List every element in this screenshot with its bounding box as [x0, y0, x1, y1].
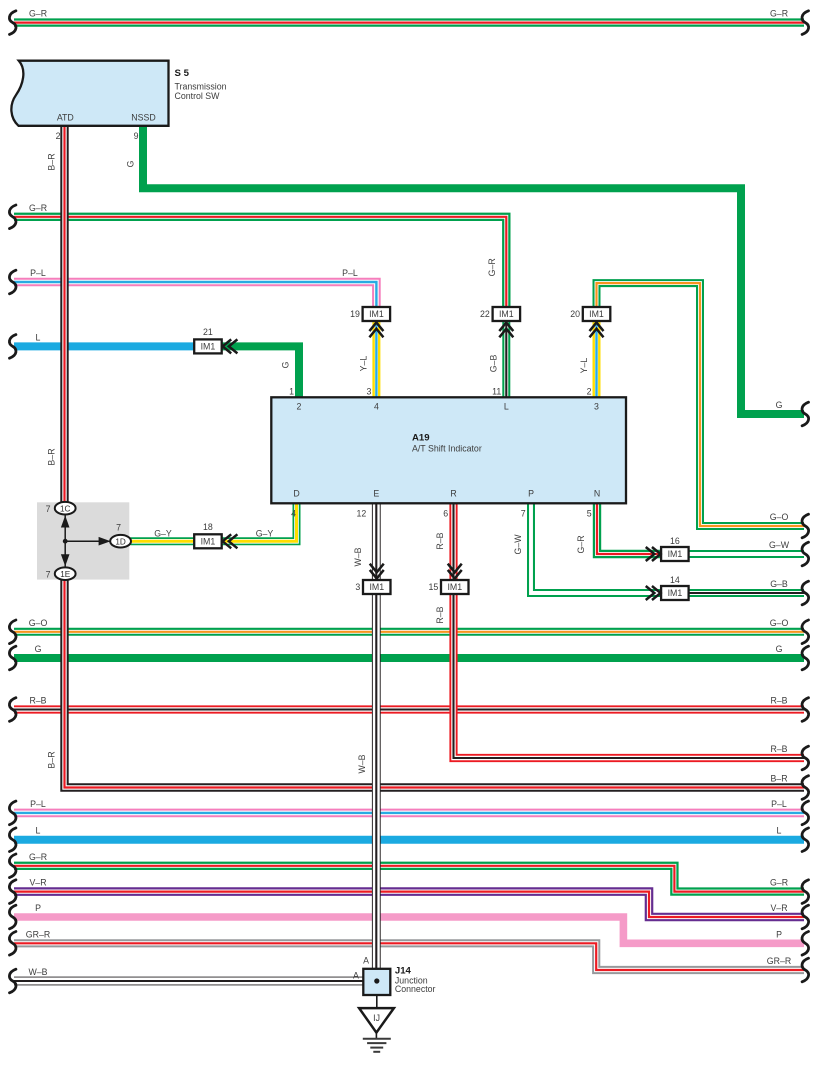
svg-text:B–R: B–R	[47, 448, 57, 465]
svg-text:7: 7	[46, 504, 51, 514]
svg-text:G–R: G–R	[487, 258, 497, 276]
svg-text:20: 20	[570, 309, 580, 319]
svg-text:D: D	[293, 489, 299, 499]
svg-text:IM1: IM1	[201, 537, 216, 547]
svg-text:G: G	[776, 644, 783, 654]
svg-text:IJ: IJ	[373, 1013, 380, 1023]
svg-text:G–O: G–O	[770, 618, 789, 628]
svg-text:16: 16	[670, 536, 680, 546]
svg-text:14: 14	[670, 575, 680, 585]
svg-text:G–Y: G–Y	[256, 529, 274, 539]
svg-text:G–Y: G–Y	[154, 529, 172, 539]
svg-text:L: L	[777, 826, 782, 836]
svg-text:G: G	[35, 644, 42, 654]
svg-text:G–W: G–W	[769, 540, 790, 550]
svg-text:G–B: G–B	[488, 355, 498, 373]
svg-text:V–R: V–R	[29, 878, 46, 888]
svg-text:R–B: R–B	[435, 606, 445, 623]
svg-text:6: 6	[443, 509, 448, 519]
svg-text:R–B: R–B	[435, 532, 445, 549]
svg-text:E: E	[373, 489, 379, 499]
svg-text:G–R: G–R	[770, 878, 788, 888]
svg-text:3: 3	[355, 582, 360, 592]
svg-text:4: 4	[374, 402, 379, 412]
svg-text:L: L	[36, 826, 41, 836]
svg-text:G–O: G–O	[770, 512, 789, 522]
svg-text:S 5: S 5	[175, 68, 190, 79]
svg-text:7: 7	[116, 523, 121, 533]
svg-text:W–B: W–B	[28, 967, 47, 977]
svg-text:L: L	[36, 332, 41, 342]
svg-text:IM1: IM1	[589, 309, 604, 319]
svg-text:R–B: R–B	[29, 696, 46, 706]
svg-text:R: R	[450, 489, 456, 499]
svg-text:15: 15	[428, 582, 438, 592]
svg-text:IM1: IM1	[369, 309, 384, 319]
svg-text:G: G	[126, 160, 136, 167]
svg-text:G–B: G–B	[770, 579, 788, 589]
svg-text:A: A	[353, 970, 359, 980]
svg-text:G: G	[281, 361, 291, 368]
svg-text:Y–L: Y–L	[359, 356, 369, 372]
svg-text:IM1: IM1	[499, 309, 514, 319]
svg-text:G–R: G–R	[29, 203, 47, 213]
svg-text:21: 21	[203, 327, 213, 337]
svg-text:4: 4	[291, 509, 296, 519]
svg-text:12: 12	[357, 509, 367, 519]
svg-text:9: 9	[134, 131, 139, 141]
svg-text:5: 5	[587, 509, 592, 519]
svg-text:NSSD: NSSD	[131, 113, 155, 123]
svg-text:G–R: G–R	[29, 852, 47, 862]
svg-text:B–R: B–R	[47, 751, 57, 768]
svg-text:A/T Shift Indicator: A/T Shift Indicator	[412, 444, 482, 454]
svg-text:7: 7	[521, 509, 526, 519]
svg-text:Y–L: Y–L	[579, 358, 589, 374]
svg-text:N: N	[594, 489, 600, 499]
svg-text:G–R: G–R	[29, 9, 47, 19]
svg-text:7: 7	[46, 570, 51, 580]
svg-text:W–B: W–B	[357, 754, 367, 773]
svg-text:IM1: IM1	[201, 342, 216, 352]
svg-text:2: 2	[587, 387, 592, 397]
svg-text:P: P	[776, 929, 782, 939]
svg-text:P: P	[35, 903, 41, 913]
svg-text:2: 2	[56, 131, 61, 141]
svg-text:A: A	[363, 955, 369, 965]
svg-text:IM1: IM1	[668, 549, 683, 559]
svg-text:IM1: IM1	[668, 588, 683, 598]
svg-text:B–R: B–R	[770, 774, 787, 784]
svg-text:11: 11	[492, 387, 501, 397]
svg-text:ATD: ATD	[57, 113, 74, 123]
svg-text:P: P	[528, 489, 534, 499]
svg-text:19: 19	[350, 309, 360, 319]
svg-text:P–L: P–L	[342, 268, 358, 278]
svg-text:L: L	[504, 402, 509, 412]
svg-text:GR–R: GR–R	[767, 956, 791, 966]
svg-text:G: G	[776, 400, 783, 410]
svg-text:IM1: IM1	[369, 582, 384, 592]
svg-text:R–B: R–B	[770, 744, 787, 754]
svg-text:V–R: V–R	[770, 903, 787, 913]
svg-text:R–B: R–B	[770, 696, 787, 706]
svg-text:18: 18	[203, 522, 213, 532]
svg-text:P–L: P–L	[30, 799, 46, 809]
svg-text:22: 22	[480, 309, 490, 319]
svg-text:G–R: G–R	[770, 9, 788, 19]
svg-text:2: 2	[297, 402, 302, 412]
svg-text:1E: 1E	[60, 570, 71, 579]
svg-text:P–L: P–L	[30, 268, 46, 278]
svg-text:IM1: IM1	[447, 582, 462, 592]
svg-text:W–B: W–B	[353, 547, 363, 566]
svg-text:3: 3	[594, 402, 599, 412]
svg-text:G–W: G–W	[513, 534, 523, 555]
svg-text:1C: 1C	[60, 504, 71, 513]
svg-text:G–R: G–R	[576, 535, 586, 553]
svg-text:1: 1	[289, 387, 294, 397]
svg-text:P–L: P–L	[771, 799, 787, 809]
svg-text:Connector: Connector	[395, 984, 436, 994]
svg-text:G–O: G–O	[29, 618, 48, 628]
svg-text:B–R: B–R	[47, 153, 57, 170]
svg-text:1D: 1D	[115, 537, 126, 546]
svg-text:Control SW: Control SW	[175, 91, 221, 101]
svg-text:3: 3	[366, 387, 371, 397]
svg-text:GR–R: GR–R	[26, 929, 50, 939]
svg-text:A19: A19	[412, 433, 430, 444]
